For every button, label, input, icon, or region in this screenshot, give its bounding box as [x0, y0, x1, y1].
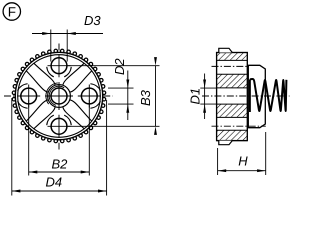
side view top hole axis [212, 65, 250, 67]
dimension B3 line with arrows [154, 57, 157, 135]
hole edge lines in section [217, 53, 248, 141]
four face holes [17, 54, 101, 138]
svg-text:B2: B2 [52, 157, 69, 172]
svg-text:F: F [8, 5, 16, 20]
thread arc outer [46, 83, 58, 104]
side view main axis [202, 95, 290, 97]
rim inner circle [18, 55, 101, 138]
svg-text:B3: B3 [138, 89, 153, 106]
dimension D1 extension lines [200, 88, 216, 104]
central crosshair v [58, 82, 60, 110]
dimension D2 extension lines [108, 88, 134, 104]
central hole [51, 88, 67, 104]
svg-text:D2: D2 [112, 58, 127, 75]
knurl step top [219, 48, 233, 52]
dimension D2 line with arrows [126, 71, 129, 121]
dimension D4 line with arrows [12, 190, 107, 193]
dimension B2 line with arrows [29, 171, 90, 174]
dimension H extension lines [218, 132, 266, 175]
tooth root circle [15, 52, 102, 139]
dimension D3 line with arrows [32, 32, 103, 35]
dimension B2 extension lines [29, 100, 90, 176]
thread arc inner [49, 86, 64, 105]
svg-text:H: H [238, 154, 248, 169]
knurl step bottom [219, 141, 233, 145]
centerline vertical front view [58, 44, 60, 150]
dimension B3 extension lines [66, 66, 160, 127]
face pocket curves [18, 63, 101, 129]
wheel body outline section [217, 53, 248, 141]
svg-text:D1: D1 [188, 88, 203, 105]
dimension D4 extension lines [12, 98, 107, 196]
knurl teeth ring [12, 49, 105, 142]
dimension D3 extension lines [51, 30, 67, 62]
view label F circle [3, 3, 20, 20]
dimension H line with arrows [218, 169, 266, 172]
side view bottom hole axis [212, 125, 266, 127]
spring [250, 79, 287, 112]
centerline horizontal front view [4, 95, 113, 97]
central boss circle [48, 85, 71, 108]
dimension D1 line with arrows [203, 74, 206, 120]
spring cap outline [248, 65, 265, 127]
central crosshair h [45, 95, 73, 97]
svg-text:D4: D4 [46, 175, 63, 190]
section hatching [217, 53, 248, 141]
svg-text:D3: D3 [84, 13, 101, 28]
